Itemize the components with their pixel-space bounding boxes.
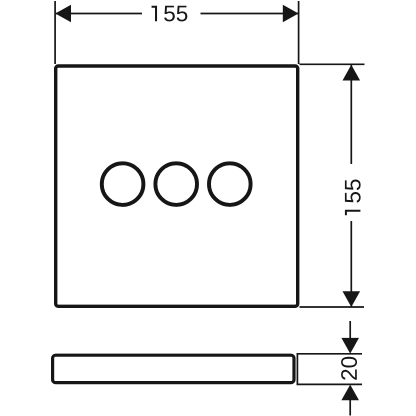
label 155 right (rotated) xyxy=(345,179,361,215)
dimension 20 upper leader line xyxy=(349,321,351,338)
arrowhead up (20 dim bottom) xyxy=(341,385,359,401)
label 20 (rotated) xyxy=(341,357,357,380)
arrowhead down (20 dim top) xyxy=(341,338,359,354)
arrowhead right (top dim) xyxy=(283,5,299,23)
dimension line 155 top, left segment xyxy=(56,13,142,15)
extension line top-right (right dim) xyxy=(300,63,365,65)
extension line top (20 dim) xyxy=(297,353,363,355)
dimension line 155 right, upper segment xyxy=(350,65,352,164)
label 155 top xyxy=(152,6,188,22)
arrowhead up (right dim) xyxy=(343,65,361,81)
faceplate square front view xyxy=(56,66,298,306)
dimension line 155 top, right segment xyxy=(201,13,299,15)
side view right end cap (thin) xyxy=(296,354,298,385)
handle circle right xyxy=(209,163,251,205)
handle circle left xyxy=(102,163,144,205)
side view slab xyxy=(53,355,294,382)
arrowhead down (right dim) xyxy=(343,291,361,307)
extension line bottom (20 dim) xyxy=(297,383,363,385)
arrowhead left (top dim) xyxy=(55,5,71,23)
extension line bottom-right (right dim) xyxy=(300,306,365,308)
handle circle middle xyxy=(155,163,197,205)
extension line left (top dim) xyxy=(54,1,56,64)
dimension 20 lower leader line xyxy=(349,400,351,416)
dimension line 155 right, lower segment xyxy=(350,221,352,307)
extension line right (top dim) xyxy=(298,1,300,64)
